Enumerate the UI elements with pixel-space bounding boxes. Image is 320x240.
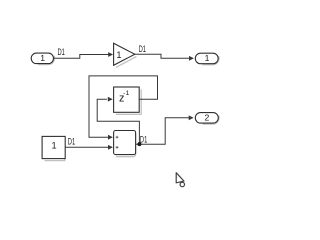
constant block (42, 136, 65, 158)
mouse cursor tail loop (180, 182, 184, 186)
wire Sum to Out2 (136, 118, 190, 144)
arrowhead into Out1 (189, 56, 194, 61)
arrowhead into Sum input 1 (108, 135, 113, 140)
svg-text:D1: D1 (58, 47, 65, 57)
wire In1 to Gain (54, 55, 110, 59)
sum plus sign input 1 (116, 136, 119, 139)
wire Gain to Out1 (135, 54, 191, 58)
sum block shadow (116, 134, 136, 157)
wire Sum output to UnitDelay input (feedback) (97, 99, 139, 143)
outport Out1 (195, 53, 218, 64)
arrowhead into Gain (108, 52, 113, 57)
svg-text:2: 2 (205, 113, 210, 123)
sum block (114, 131, 136, 155)
svg-text:1: 1 (40, 53, 45, 63)
outport Out2 (195, 113, 218, 124)
svg-text:D1: D1 (68, 136, 75, 146)
outport Out1 shadow (202, 56, 219, 65)
outport Out2 shadow (203, 116, 220, 125)
svg-text:1: 1 (205, 53, 210, 63)
arrowhead into UnitDelay (108, 97, 113, 102)
inport In1 shadow (38, 56, 55, 65)
svg-text:D1: D1 (139, 44, 146, 54)
sum plus sign input 2 (116, 146, 119, 149)
constant block shadow (45, 141, 65, 161)
unit delay block shadow (116, 89, 141, 114)
wire UnitDelay output around loop to Sum input 1 (89, 76, 158, 137)
arrowhead into Sum input 2 (108, 145, 113, 150)
unit delay block (114, 87, 140, 112)
arrowhead into Out2 (189, 115, 194, 120)
wire Constant to Sum input 2 (65, 146, 108, 148)
mouse cursor arrow (176, 173, 184, 183)
svg-text:-1: -1 (123, 90, 130, 97)
inport In1 (31, 53, 53, 64)
gain block shadow (116, 57, 136, 68)
gain block (114, 43, 135, 65)
svg-text:1: 1 (116, 50, 121, 60)
svg-text:D1: D1 (140, 134, 147, 144)
svg-text:1: 1 (52, 141, 57, 151)
junction dot on Sum output (137, 142, 141, 146)
